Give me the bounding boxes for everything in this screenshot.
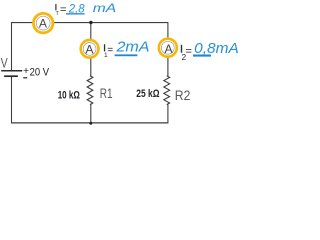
svg-text:A: A: [85, 42, 94, 56]
label I2 symbol: [181, 45, 182, 53]
svg-text:=: =: [60, 4, 66, 16]
wire middle branch vertical: [90, 23, 92, 76]
wire left vertical lower: [11, 76, 13, 123]
ammeter AT inner circle: [36, 16, 50, 30]
svg-text:2mA: 2mA: [115, 39, 149, 56]
label I1 symbol: [104, 44, 105, 51]
node junction bottom (middle branch tap): [89, 122, 92, 125]
svg-text:R2: R2: [175, 88, 191, 103]
svg-text:V: V: [1, 56, 8, 71]
svg-text:10 kΩ: 10 kΩ: [58, 90, 81, 102]
svg-text:A: A: [165, 42, 174, 56]
wire middle branch lower lead: [90, 104, 92, 123]
resistor R1 zigzag: [87, 76, 93, 105]
ammeter A2 inner circle: [161, 41, 174, 54]
svg-text:A: A: [39, 16, 48, 30]
battery polarity -: [23, 77, 27, 78]
battery V1 plate long (+): [1, 70, 22, 72]
svg-text:T: T: [56, 11, 59, 17]
value IT underline: [66, 13, 85, 14]
ammeter AT ring: [34, 13, 53, 32]
svg-text:=: =: [107, 45, 113, 56]
ammeter A1 ring: [81, 40, 99, 58]
wire bottom horizontal: [11, 122, 168, 124]
svg-text:+: +: [23, 65, 29, 77]
battery V1 plate short (-): [4, 75, 18, 77]
ammeter A1 inner circle: [83, 43, 96, 56]
resistor R2 zigzag: [164, 76, 170, 105]
svg-text:R1: R1: [100, 86, 113, 101]
svg-text:=: =: [186, 46, 192, 58]
wire left vertical upper: [11, 22, 13, 70]
wire right branch lower lead: [167, 104, 169, 123]
label IT symbol: [55, 4, 56, 10]
ammeter A2 ring: [159, 39, 177, 57]
svg-text:mA: mA: [93, 1, 116, 15]
wire top horizontal: [12, 22, 168, 24]
value I1 underline: [115, 54, 138, 56]
svg-text:0,8mA: 0,8mA: [194, 40, 239, 57]
svg-text:20 V: 20 V: [30, 67, 50, 79]
value I2 underline: [193, 55, 211, 57]
svg-text:25 kΩ: 25 kΩ: [136, 88, 160, 100]
wire right branch vertical: [167, 22, 169, 76]
node junction top (middle branch tap): [89, 21, 92, 24]
